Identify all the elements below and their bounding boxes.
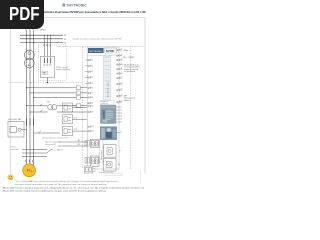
svg-text:2: 2 xyxy=(121,110,122,112)
relay inner terminal column upper xyxy=(104,56,110,104)
svg-text:L – SF302: L – SF302 xyxy=(37,30,47,32)
svg-text:Px: Px xyxy=(118,164,120,166)
relay header THYTRONIC chip xyxy=(88,48,104,53)
wire tap to VT TV1 xyxy=(26,105,87,106)
svg-text:10: 10 xyxy=(92,105,94,107)
svg-text:fase deve essere concordata co: fase deve essere concordata con i valori… xyxy=(15,183,108,186)
svg-text:8: 8 xyxy=(92,97,93,99)
ground dashed bus xyxy=(10,82,82,84)
sensor block TO2 xyxy=(63,115,88,124)
svg-text:TP: TP xyxy=(93,169,95,171)
CT coils xyxy=(43,58,45,64)
svg-text:4: 4 xyxy=(92,77,93,79)
svg-text:THYTRONIC: THYTRONIC xyxy=(89,51,102,53)
fuse block on tap wire xyxy=(76,86,80,90)
svg-text:Morsetti opzionali interruttor: Morsetti opzionali interruttore MP xyxy=(42,137,69,140)
svg-text:A1: A1 xyxy=(78,139,80,142)
output relay module row1 xyxy=(104,145,116,157)
svg-text:13: 13 xyxy=(92,131,94,133)
svg-text:residue omopolare: residue omopolare xyxy=(56,68,70,71)
wire tap L1 to relay xyxy=(26,87,87,88)
svg-text:L1: L1 xyxy=(64,35,67,37)
photo 1 pin stubs xyxy=(116,107,122,124)
svg-text:interruttore MP: interruttore MP xyxy=(45,143,57,146)
svg-text:2: 2 xyxy=(92,65,93,67)
motor CT curls xyxy=(26,160,34,163)
svg-text:Quadro tensione ausiliaria per: Quadro tensione ausiliaria per alimentaz… xyxy=(73,37,122,40)
wires into motor xyxy=(26,160,28,166)
bus junction dots xyxy=(26,35,34,43)
line CT coils xyxy=(26,119,28,126)
PDF badge xyxy=(0,0,44,29)
output relay box row1 xyxy=(90,140,99,148)
svg-text:1: 1 xyxy=(121,107,122,109)
output terminals column xyxy=(100,140,104,163)
svg-text:TV1: TV1 xyxy=(47,102,52,104)
warning emoji icon xyxy=(8,175,13,180)
svg-text:6: 6 xyxy=(121,122,122,124)
CT feeder drops xyxy=(44,35,51,57)
voltage transformer TV1 xyxy=(48,105,57,110)
busbar L3 xyxy=(20,41,63,43)
svg-text:PE+ – 24VDC: PE+ – 24VDC xyxy=(123,57,135,59)
busbar L1 xyxy=(20,34,63,36)
wire tap to VT lower xyxy=(29,111,87,112)
CT box note text xyxy=(56,66,70,71)
breaker auxiliary box SA1 xyxy=(8,121,27,137)
svg-text:TO1: TO1 xyxy=(74,106,77,108)
switch hook SF320 xyxy=(47,150,52,153)
svg-text:9: 9 xyxy=(92,103,93,105)
svg-text:18: 18 xyxy=(121,83,123,85)
CT secondary link xyxy=(34,131,61,133)
svg-text:fabbrica: fabbrica xyxy=(124,99,130,102)
svg-text:17: 17 xyxy=(121,77,123,79)
terminal photo block 1 xyxy=(100,105,116,124)
aux wire B1 xyxy=(58,144,87,146)
svg-text:3~: 3~ xyxy=(30,169,34,173)
svg-text:19: 19 xyxy=(121,89,123,91)
output relay module row2 xyxy=(104,158,116,171)
schematic border frame xyxy=(10,18,145,174)
transformer T1 (delta-wye) xyxy=(24,50,34,68)
relay right pin column xyxy=(117,49,123,103)
label NA1 xyxy=(42,71,48,74)
bottom right mini box xyxy=(105,173,122,176)
svg-text:3: 3 xyxy=(121,113,122,115)
svg-text:Misura delle tensioni e fornit: Misura delle tensioni e fornitura loop f… xyxy=(3,186,145,189)
integration info box xyxy=(100,100,114,105)
output contact aux box row2 xyxy=(85,158,89,164)
svg-text:5: 5 xyxy=(121,119,122,121)
svg-text:**Per i dati dell’NA1 fare rif: **Per i dati dell’NA1 fare riferimento a… xyxy=(15,180,119,183)
svg-text:TO2: TO2 xyxy=(74,117,77,119)
panel dashed boundary top xyxy=(57,46,145,48)
svg-text:e s-upervisione: e s-upervisione xyxy=(124,70,136,73)
svg-text:21: 21 xyxy=(121,101,123,103)
svg-text:7: 7 xyxy=(92,93,93,95)
outgoing CT link wire xyxy=(22,152,47,154)
aux wire A1 xyxy=(58,139,87,142)
svg-text:5: 5 xyxy=(92,83,93,85)
panel dashed boundary vertical xyxy=(81,47,83,169)
svg-text:Morsetti uscite: Morsetti uscite xyxy=(100,150,103,160)
svg-text:moduli opz.: moduli opz. xyxy=(101,103,109,105)
outgoing CT link wire xyxy=(22,149,47,151)
note REF impostazioni xyxy=(124,95,136,101)
CT block TA1 xyxy=(40,57,54,78)
relay model label NV10P xyxy=(105,48,117,53)
fuse block on tap wire xyxy=(76,104,80,108)
svg-text:THYTRONIC: THYTRONIC xyxy=(66,3,87,7)
svg-text:1: 1 xyxy=(92,60,93,62)
svg-text:14: 14 xyxy=(121,63,123,65)
svg-text:M: M xyxy=(27,168,30,172)
svg-text:Vista dal retro NA10: Vista dal retro NA10 xyxy=(99,171,114,174)
busbar L2 xyxy=(20,38,63,40)
svg-text:L1 – SF320: L1 – SF320 xyxy=(53,149,63,151)
svg-text:16: 16 xyxy=(121,72,123,74)
spare contact box bottom xyxy=(85,166,96,173)
svg-text:Morsettiera ingressi: Morsettiera ingressi xyxy=(106,81,109,97)
photo 2 stub label P xyxy=(117,132,122,134)
svg-text:Misura delle tensioni residue: Misura delle tensioni residue morsiere c… xyxy=(3,189,107,192)
sensor block TO1 xyxy=(63,103,88,112)
svg-text:3: 3 xyxy=(92,71,93,73)
svg-text:20: 20 xyxy=(121,95,123,97)
disconnect switch SF302 hooks xyxy=(25,27,26,33)
footnote paragraph 1 xyxy=(15,180,119,186)
svg-text:15: 15 xyxy=(121,68,123,70)
phase wire L1 vertical xyxy=(26,34,28,161)
THYTRONIC logo xyxy=(62,3,87,7)
phase wire L2 vertical xyxy=(29,34,31,161)
svg-text:P: P xyxy=(119,151,121,153)
switch hook on VT tap lower xyxy=(40,110,43,112)
svg-text:P: P xyxy=(120,132,122,134)
svg-text:protezione: protezione xyxy=(11,148,19,151)
relay header separator xyxy=(88,55,120,57)
outgoing CT link wire xyxy=(22,156,47,158)
sensor block TO3 xyxy=(63,127,88,136)
svg-text:RP: RP xyxy=(93,171,95,173)
svg-text:+Vaux –: +Vaux – xyxy=(123,50,130,52)
CT zone dashed box xyxy=(39,45,67,81)
svg-text:Kxy NV-MP SA1: Kxy NV-MP SA1 xyxy=(8,118,21,121)
phase wire L3 vertical xyxy=(33,34,35,161)
svg-text:NA1: NA1 xyxy=(43,72,47,75)
svg-text:12: 12 xyxy=(92,126,94,128)
fuse block on tap wire xyxy=(76,96,80,100)
svg-text:11: 11 xyxy=(92,112,94,114)
output contact aux box row1 xyxy=(85,141,89,147)
svg-text:L2: L2 xyxy=(64,39,67,41)
svg-text:11: 11 xyxy=(121,49,123,51)
CT ground drop wire xyxy=(47,78,48,84)
motor M 3~ xyxy=(23,164,36,177)
terminal photo block 2 xyxy=(100,126,117,140)
output relay box row2 xyxy=(90,156,99,167)
svg-text:12: 12 xyxy=(121,54,123,56)
protection relay U1 NV10P outline xyxy=(88,47,120,169)
svg-text:NV10P: NV10P xyxy=(106,49,114,53)
footnote paragraph 2 xyxy=(3,186,145,192)
svg-text:6: 6 xyxy=(92,87,93,89)
note tenuta carico xyxy=(45,140,60,145)
note interno protezione xyxy=(11,146,19,152)
wire tap L3 to relay xyxy=(33,97,87,98)
switch hook on VT tap xyxy=(40,104,43,106)
device dashed boundary right xyxy=(130,48,132,171)
relay left pin column xyxy=(88,59,94,133)
wire tap L2 to relay xyxy=(29,92,87,93)
svg-text:Schema inserzione NV10P per as: Schema inserzione NV10P per associarlo a… xyxy=(43,10,146,14)
svg-text:B1: B1 xyxy=(78,144,80,146)
relay left pin stubs xyxy=(85,59,88,61)
svg-text:L3: L3 xyxy=(64,42,67,44)
fuse block on tap wire xyxy=(76,91,80,95)
svg-text:TO3: TO3 xyxy=(74,129,77,131)
footnote divider line xyxy=(139,171,141,184)
note RS-485 Modbus xyxy=(124,64,140,73)
svg-text:4: 4 xyxy=(121,116,122,118)
